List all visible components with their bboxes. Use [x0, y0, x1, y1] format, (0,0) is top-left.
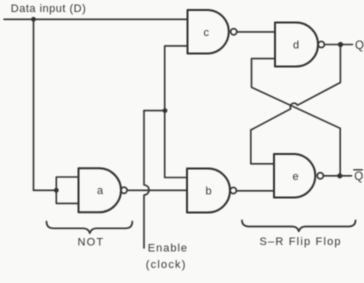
svg-text:NOT: NOT [78, 237, 105, 249]
brace NOT group [47, 222, 133, 234]
wire enable net to gate-c and gate-b inputs [165, 46, 188, 178]
svg-text:Q: Q [354, 171, 363, 183]
nand gate d [275, 23, 318, 67]
svg-text:Enable: Enable [148, 243, 188, 255]
node Q-bar junction [337, 173, 342, 178]
svg-text:d: d [293, 40, 299, 52]
svg-text:b: b [206, 186, 212, 198]
wire cross-coupling Q-bar to gate-d input [252, 59, 341, 176]
wire gate-e output to Q-bar [324, 175, 352, 177]
wire gate-b output to gate-e [237, 190, 274, 192]
svg-text:a: a [97, 185, 104, 197]
wire gate-a output to gate-b input [127, 189, 187, 191]
svg-text:c: c [204, 27, 210, 39]
gate a output bubble [121, 187, 127, 193]
node enable junction [163, 108, 168, 113]
gate d output bubble [318, 41, 324, 47]
wire enable to junction [144, 110, 165, 112]
wire gate-a input tie [56, 177, 78, 203]
wire cross-coupling Q to gate-e input (with hop) [251, 45, 341, 164]
node data-input junction [31, 17, 36, 22]
nand gate e [274, 154, 315, 198]
wire Q-bar overline [354, 169, 363, 171]
nand gate c [188, 10, 229, 54]
svg-text:Q: Q [355, 40, 364, 52]
nand gate a [79, 168, 122, 212]
gate e output bubble [317, 173, 323, 179]
gate b output bubble [230, 187, 236, 193]
wire gate-d output to Q [325, 44, 353, 46]
brace S-R flip flop group [242, 220, 356, 231]
wire gate-c output to gate-d [237, 31, 275, 33]
wire enable vertical with hop [144, 111, 149, 248]
wire to gate a input [34, 189, 57, 191]
node gate-a input junction [54, 188, 59, 193]
svg-text:(clock): (clock) [146, 259, 187, 271]
node Q junction [338, 42, 343, 47]
wire data-input horizontal [4, 18, 188, 20]
gate c output bubble [231, 29, 237, 35]
wire data-input vertical drop [33, 19, 35, 190]
svg-text:e: e [293, 171, 299, 183]
nand gate b [187, 169, 230, 213]
svg-text:Data input (D): Data input (D) [11, 3, 86, 15]
svg-text:S–R Flip Flop: S–R Flip Flop [260, 236, 342, 248]
